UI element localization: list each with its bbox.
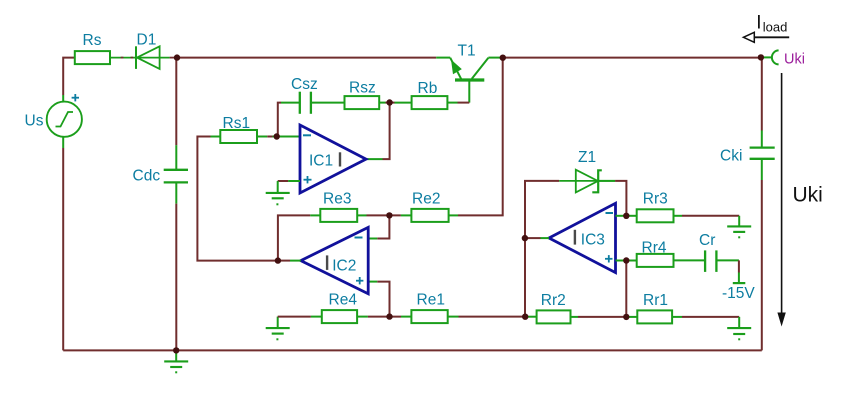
wire: T1 collector to right node [488, 57, 500, 59]
svg-text:Re2: Re2 [412, 190, 440, 207]
junction node at Re1/Rr2 [522, 314, 528, 320]
junction node at Rr2/Rr1 [623, 314, 629, 320]
ground at Rr1 right [727, 317, 751, 339]
ground at Rr3 right [727, 216, 751, 238]
wire: Re3 to Re2 node [357, 214, 411, 216]
junction node at IC3 + input [623, 257, 629, 263]
svg-text:Uki: Uki [784, 51, 805, 67]
svg-text:Rb: Rb [418, 80, 438, 97]
wire: Rb to T1 base [447, 102, 469, 104]
wire: Z1 left lead [559, 180, 615, 182]
junction node at IC1 - input [274, 133, 280, 139]
capacitor Csz [300, 92, 311, 114]
svg-text:Cdc: Cdc [133, 168, 161, 185]
voltage arrow Uki [777, 73, 785, 327]
svg-text:Re3: Re3 [323, 190, 351, 207]
op-amp IC1 [300, 125, 366, 193]
wire: IC1 + input to ground [278, 180, 300, 182]
ground at Re4 left [266, 317, 290, 340]
resistor Rr2 [537, 310, 571, 323]
resistor Rs [75, 51, 110, 64]
svg-text:IC3: IC3 [581, 232, 605, 249]
svg-text:Rr3: Rr3 [643, 190, 668, 207]
wire: Cki top lead [761, 131, 763, 148]
resistor Re1 [411, 310, 447, 323]
svg-text:load: load [763, 20, 788, 35]
power terminal -15V [733, 282, 746, 284]
junction node at IC3 - input [623, 213, 629, 219]
minus mark IC2 [355, 237, 363, 239]
junction node at T1 collector [500, 55, 506, 61]
wire: IC2 - input to Re3/Re2 node [368, 215, 389, 238]
wire: Rs to D1 [110, 57, 170, 59]
wire: Rr2 left stub [525, 316, 536, 318]
svg-text:Re4: Re4 [329, 292, 358, 309]
wire: top rail to T1 emitter [177, 57, 436, 59]
output terminal at Uki node [763, 50, 779, 64]
junction node at IC2 output [275, 257, 281, 263]
svg-text:Cki: Cki [720, 148, 742, 165]
resistor Rsz [345, 96, 380, 109]
svg-text:Re1: Re1 [417, 292, 445, 309]
svg-text:-15V: -15V [722, 285, 755, 302]
current arrow I_load [743, 32, 789, 42]
capacitor Cr [705, 250, 716, 272]
wire: Rr4 to Cr [674, 259, 706, 261]
wire: IC3 - input stub [616, 215, 627, 217]
minus mark IC3 [606, 212, 614, 214]
wire: left vertical below Us to bottom rail [62, 148, 64, 350]
svg-text:Uki: Uki [793, 184, 823, 207]
wire: IC3 output [525, 237, 549, 239]
wire: bottom rail [63, 349, 762, 351]
zener diode Z1 [576, 170, 602, 193]
junction node at D1/Cdc [174, 54, 180, 60]
wire: IC2 output node up to Re3 [278, 215, 320, 260]
wire: Re2 right up to T1 collector node [449, 58, 503, 216]
svg-text:Cr: Cr [699, 232, 715, 249]
wire: right column (bottom) [761, 180, 763, 350]
wire: node B down to IC1 output [366, 103, 389, 160]
IC1 marker bar [339, 152, 341, 166]
capacitor Cdc [164, 170, 188, 183]
plus mark at Us [72, 94, 79, 101]
wire: Rsz to node B [379, 102, 411, 104]
wire: left feedback loop from Rs1 to IC2 output [197, 137, 278, 261]
wire: left vertical + top-left corner [63, 58, 75, 95]
wire: Rr4 left stub [626, 260, 636, 262]
svg-text:Rsz: Rsz [349, 80, 376, 97]
svg-text:T1: T1 [458, 42, 476, 59]
wire: ground to Re4 [278, 316, 322, 318]
voltage source Us [47, 102, 82, 137]
wire: IC2 + input to Re4/Re1 node [368, 282, 389, 317]
resistor Re2 [411, 209, 448, 222]
svg-text:Rs1: Rs1 [223, 115, 251, 132]
wire: IC2 output [278, 260, 301, 262]
resistor Rr4 [637, 254, 674, 267]
wire: Cdc column [175, 58, 177, 351]
svg-text:I: I [756, 12, 761, 33]
ground at IC1 + input [266, 181, 290, 204]
svg-text:Rr2: Rr2 [541, 292, 566, 309]
wire: Cr right to -15V [716, 260, 739, 283]
junction node at Re4/Re1 [386, 313, 392, 319]
junction node at IC3 output [522, 235, 528, 241]
resistor Rr1 [637, 310, 672, 323]
ground at bottom rail [164, 350, 188, 372]
resistor Rr3 [637, 209, 674, 222]
wire: Re1 to Rr2 node [448, 316, 526, 318]
minus mark IC1 [303, 134, 311, 136]
wire: Rr2 to Rr1 node [571, 316, 638, 318]
wire: IC3 + input stub [616, 260, 627, 262]
svg-text:Rr1: Rr1 [643, 292, 668, 309]
IC2 marker bar [326, 255, 328, 270]
wire: Rs1 to IC1 inverting input [257, 136, 300, 138]
wire: Rr1 right to ground [672, 316, 739, 318]
wire: Z1 right to IC3 - node [598, 181, 626, 216]
wire: Rr3 left stub [626, 215, 636, 217]
resistor Re4 [322, 310, 357, 323]
wire: Us top lead [62, 95, 64, 102]
wire: IC3 + node down to Rr2/Rr1 node [625, 261, 627, 317]
svg-text:Csz: Csz [291, 76, 318, 93]
svg-text:IC1: IC1 [309, 152, 333, 169]
plus mark IC3 [605, 255, 613, 262]
svg-text:D1: D1 [137, 32, 157, 49]
svg-text:Rs: Rs [83, 32, 102, 49]
wire: right column (top) [761, 57, 763, 130]
wire: Us bottom lead [62, 137, 64, 148]
svg-text:Us: Us [25, 113, 44, 130]
wire: D1 to node [170, 57, 177, 59]
resistor Re3 [320, 209, 357, 222]
op-amp IC2 [301, 227, 368, 293]
capacitor Cki [750, 148, 775, 159]
op-amp IC3 [549, 203, 616, 272]
junction node at bottom ground [173, 347, 179, 353]
junction node at Re3/Re2 [386, 212, 392, 218]
IC3 marker bar [574, 230, 576, 245]
junction node at Rsz/Rb [386, 99, 392, 105]
svg-text:Z1: Z1 [578, 149, 596, 166]
junction node at Uki output [758, 54, 764, 60]
wire: Re4 to Re1 node [357, 316, 411, 318]
wire: Csz left corner down to node A [278, 103, 345, 137]
svg-text:Rr4: Rr4 [642, 240, 667, 257]
resistor Rb [412, 96, 448, 109]
wire: Cki bottom lead [761, 159, 763, 180]
wire: Rr3 right to ground [674, 215, 740, 217]
diode D1 [136, 46, 160, 69]
wire: IC3 left column (Z1 row to Rr2 node) [525, 181, 559, 317]
plus mark IC1 [304, 176, 312, 183]
plus mark IC2 [356, 277, 363, 284]
svg-text:IC2: IC2 [332, 257, 356, 274]
transistor T1 [450, 58, 488, 103]
resistor Rs1 [220, 130, 257, 143]
